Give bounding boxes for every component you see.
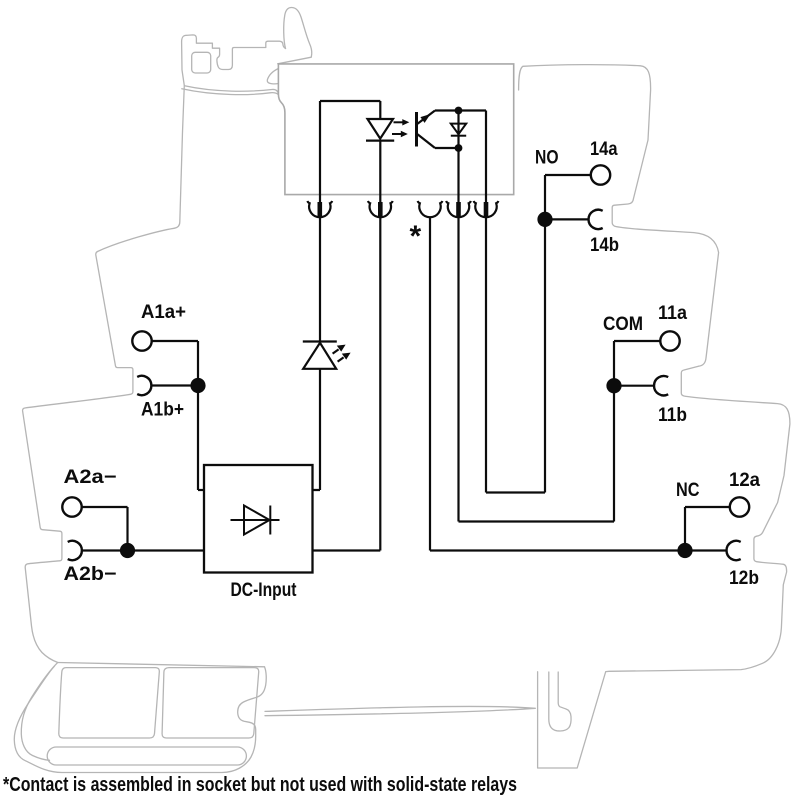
wire NO to 14a xyxy=(545,174,591,176)
wire top horizontal in box xyxy=(320,100,380,102)
terminal A2a circle xyxy=(62,497,81,516)
terminal 14a circle xyxy=(591,165,610,184)
junction dot A2b xyxy=(120,543,135,558)
terminal 11b arc xyxy=(654,376,668,395)
opto LED cathode bar xyxy=(366,140,394,142)
wire NC junction to 12b arc xyxy=(685,549,726,551)
wire opto collector horizontal xyxy=(435,109,459,111)
junction dot opto bottom xyxy=(455,144,463,152)
junction dot NC xyxy=(677,543,692,558)
terminal A2b arc xyxy=(68,541,82,560)
din rail edge lines xyxy=(265,706,535,715)
module outline right profile xyxy=(519,65,790,672)
wire contact 3 to NC junction xyxy=(430,549,685,551)
module outline left profile xyxy=(23,35,186,662)
wire COM to 11a xyxy=(614,340,660,342)
phototransistor Q1 xyxy=(417,111,436,149)
svg-text:11b: 11b xyxy=(658,405,687,426)
wire contact 2 down xyxy=(379,217,381,550)
socket contact 4 xyxy=(446,201,471,217)
wire corner down to A2b junction xyxy=(126,507,128,551)
wire NO junction to 14b arc xyxy=(545,218,588,220)
socket contact 2 xyxy=(368,201,393,217)
svg-text:NO: NO xyxy=(535,148,559,169)
svg-text:*Contact is assembled in socke: *Contact is assembled in socket but not … xyxy=(3,774,517,796)
socket contact 5 xyxy=(474,201,499,217)
svg-text:11a: 11a xyxy=(658,303,687,324)
terminal 12a circle xyxy=(730,497,749,516)
left mounting foot outer xyxy=(14,663,266,773)
optocoupler housing box xyxy=(278,64,514,195)
svg-text:NC: NC xyxy=(676,480,700,501)
wire to DC-Input right bottom xyxy=(312,549,380,551)
wire A2b junction to DC-Input xyxy=(128,549,205,551)
wire contact 1 pin up into box xyxy=(319,101,321,202)
wire into DC-Input left top xyxy=(198,489,204,491)
wire opto emitter horizontal xyxy=(435,147,459,149)
junction dot opto top xyxy=(455,107,463,115)
svg-text:A2a−: A2a− xyxy=(64,467,117,488)
wire contact 5 down xyxy=(485,217,487,492)
clamp bulge near seam xyxy=(267,69,278,84)
right foot inner hook xyxy=(549,672,571,731)
junction dot COM xyxy=(606,378,621,393)
wire A2b arc to junction xyxy=(82,549,128,551)
junction dot A1b xyxy=(190,378,205,393)
svg-text:A1a+: A1a+ xyxy=(141,302,186,323)
wire opto diode vertical xyxy=(457,111,459,149)
clamp inner window xyxy=(192,52,211,73)
svg-text:DC-Input: DC-Input xyxy=(231,579,297,601)
wire corner down to A1b junction xyxy=(197,341,199,386)
wire junction down xyxy=(197,386,199,491)
wire A2a to corner xyxy=(81,506,127,508)
left foot slot xyxy=(47,747,246,765)
left foot inner panel 2 xyxy=(162,668,259,738)
wire opto top dot to contact 5 xyxy=(459,111,487,203)
wire LED to contact 1 xyxy=(319,217,321,341)
terminal 14b arc xyxy=(589,210,603,229)
svg-text:A2b−: A2b− xyxy=(64,564,117,585)
socket contact 3 (unused) xyxy=(418,201,443,217)
wire down to opto LED xyxy=(379,101,381,119)
svg-text:*: * xyxy=(410,220,422,253)
wire COM junction to 11b arc xyxy=(614,385,654,387)
terminal A1a circle xyxy=(132,331,151,350)
svg-text:14b: 14b xyxy=(590,235,619,256)
wire opto LED to contact 2 xyxy=(379,141,381,203)
wire across to COM riser xyxy=(459,520,615,522)
wire opto bottom dot to contact 4 xyxy=(457,148,459,202)
bridge diode xyxy=(231,506,280,535)
wire contact 3 down xyxy=(429,217,431,550)
wire NO riser up xyxy=(544,219,546,492)
terminal 11a circle xyxy=(660,331,679,350)
left foot inner hook xyxy=(21,666,54,760)
clamp release finger xyxy=(278,7,312,63)
svg-text:12a: 12a xyxy=(729,470,760,491)
opto clamp diode xyxy=(451,124,466,136)
wire contact 4 down xyxy=(457,217,459,521)
module outline bottom-left edge xyxy=(58,663,265,667)
wire across to NO riser xyxy=(486,491,545,493)
wire A1b arc to junction xyxy=(152,384,199,386)
left foot inner panel 1 xyxy=(59,668,160,738)
svg-text:14a: 14a xyxy=(590,139,618,160)
opto LED triangle xyxy=(368,119,394,139)
module outline top clamp xyxy=(186,35,286,70)
wire NC junction up xyxy=(684,507,686,551)
indicator LED xyxy=(303,342,351,369)
opto LED arrow 1 xyxy=(394,119,410,125)
terminal A1b arc xyxy=(137,376,151,395)
clamp bridge curves xyxy=(185,86,278,93)
DC-Input box xyxy=(204,465,313,573)
socket contact 1 xyxy=(307,201,332,217)
junction dot NO xyxy=(537,212,552,227)
wire COM junction up xyxy=(613,341,615,386)
terminal 12b arc xyxy=(727,541,741,560)
opto LED arrow 2 xyxy=(392,131,408,137)
wire COM riser up xyxy=(613,386,615,522)
right mounting foot xyxy=(538,672,606,768)
wire A1a to corner xyxy=(152,340,198,342)
svg-text:12b: 12b xyxy=(729,568,759,589)
wire NC to 12a xyxy=(685,506,730,508)
svg-text:COM: COM xyxy=(603,314,643,335)
svg-text:A1b+: A1b+ xyxy=(141,400,184,421)
wire DC-Input right to LED branch xyxy=(312,369,320,490)
wire NO junction up xyxy=(544,175,546,219)
